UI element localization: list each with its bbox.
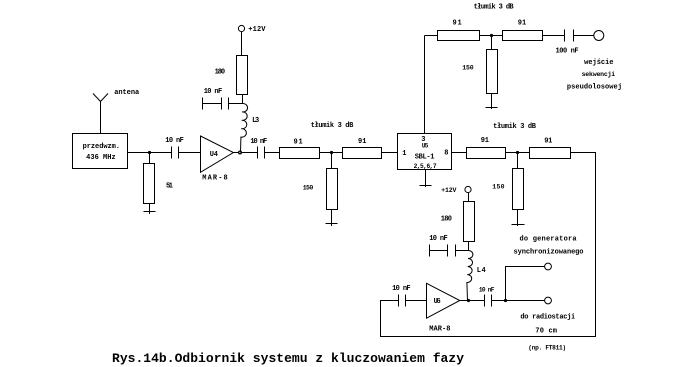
svg-text:MAR-8: MAR-8 bbox=[429, 325, 450, 333]
node junction dot bbox=[148, 151, 151, 154]
wire bbox=[480, 35, 503, 37]
capacitor 10 nF decoupling (top) bbox=[203, 88, 243, 110]
wire pin 8 bbox=[452, 152, 467, 154]
wire U6 output bbox=[460, 300, 485, 302]
svg-text:U5: U5 bbox=[422, 142, 429, 149]
terminal wejscie bbox=[594, 31, 604, 41]
terminal do generatora bbox=[545, 263, 552, 270]
node U6 output bbox=[467, 299, 470, 302]
svg-text:przedwzm.: przedwzm. bbox=[83, 143, 120, 151]
svg-text:10 nF: 10 nF bbox=[250, 138, 267, 146]
ground bbox=[486, 107, 498, 109]
svg-text:tłumik 3 dB: tłumik 3 dB bbox=[474, 4, 515, 12]
svg-text:antena: antena bbox=[114, 89, 140, 97]
svg-text:91: 91 bbox=[358, 138, 367, 146]
wire to upper output terminal bbox=[506, 267, 545, 301]
svg-text:10 nF: 10 nF bbox=[429, 235, 448, 243]
resistor 180 (U6 bias) bbox=[441, 202, 475, 242]
resistor 150 (shunt 2) bbox=[462, 36, 497, 110]
svg-text:(np. FT811): (np. FT811) bbox=[528, 344, 566, 351]
wire bbox=[241, 32, 243, 56]
svg-text:pseudolosowej: pseudolosowej bbox=[567, 84, 622, 92]
resistor 91 (R a) bbox=[280, 139, 320, 159]
svg-text:180: 180 bbox=[215, 68, 226, 76]
svg-text:MAR-8: MAR-8 bbox=[202, 175, 227, 183]
mixer U5 SBL-1 bbox=[398, 134, 452, 170]
ground under U5 bbox=[420, 170, 432, 188]
wire pin 3 up bbox=[424, 36, 426, 134]
svg-text:wejście: wejście bbox=[584, 59, 613, 67]
svg-text:8: 8 bbox=[444, 150, 448, 158]
wire to feedback loop bbox=[381, 153, 596, 337]
svg-text:L3: L3 bbox=[252, 117, 259, 125]
resistor 180 bbox=[215, 56, 248, 95]
svg-text:51: 51 bbox=[166, 183, 173, 191]
inductor L3 bbox=[241, 103, 260, 152]
svg-text:+12V: +12V bbox=[248, 26, 266, 34]
wire U4 output bbox=[233, 152, 257, 154]
wire to lower output terminal bbox=[506, 300, 545, 302]
wire top rail bbox=[425, 35, 438, 37]
resistor 91 (R d) bbox=[503, 20, 543, 41]
svg-text:10 nF: 10 nF bbox=[165, 137, 184, 145]
resistor 91 (R c) bbox=[438, 20, 480, 41]
svg-text:10 nF: 10 nF bbox=[204, 88, 223, 96]
svg-text:436 MHz: 436 MHz bbox=[86, 154, 116, 162]
svg-text:10 nF: 10 nF bbox=[479, 287, 495, 294]
label do generatora synchronizowanego bbox=[514, 236, 584, 257]
resistor 91 (R b) bbox=[343, 138, 382, 159]
ground bbox=[144, 211, 156, 213]
wire bbox=[543, 35, 565, 37]
svg-text:Rys.14b.Odbiornik systemu z kl: Rys.14b.Odbiornik systemu z kluczowaniem… bbox=[112, 351, 464, 366]
resistor 150 (shunt 1) bbox=[303, 153, 338, 227]
op-amp U6 (MAR-8) bbox=[427, 283, 460, 333]
capacitor 100 nF bbox=[556, 30, 594, 56]
wire bbox=[506, 152, 530, 154]
capacitor 10 nF (preamp to U4) bbox=[165, 137, 200, 159]
svg-text:91: 91 bbox=[453, 20, 462, 28]
svg-text:150: 150 bbox=[303, 185, 314, 192]
svg-text:SBL-1: SBL-1 bbox=[415, 154, 435, 162]
node junction bbox=[330, 151, 333, 154]
preamp box przedwzm. 436 MHz bbox=[73, 134, 128, 169]
svg-text:91: 91 bbox=[518, 20, 527, 28]
svg-text:U4: U4 bbox=[210, 151, 218, 159]
capacitor 10 nF (U6 input) bbox=[392, 285, 426, 306]
svg-text:180: 180 bbox=[441, 216, 452, 224]
svg-text:tłumik 3 dB: tłumik 3 dB bbox=[493, 123, 537, 131]
svg-text:150: 150 bbox=[462, 65, 473, 72]
capacitor 10 nF (U6 output) bbox=[479, 287, 506, 307]
ground bbox=[512, 224, 525, 226]
op-amp U4 (MAR-8) bbox=[201, 136, 234, 183]
svg-text:do generatora: do generatora bbox=[520, 236, 578, 244]
wire bbox=[468, 242, 470, 251]
wire bbox=[468, 193, 470, 202]
svg-text:tłumik 3 dB: tłumik 3 dB bbox=[311, 122, 354, 130]
svg-text:2,5,6,7: 2,5,6,7 bbox=[414, 163, 437, 170]
svg-text:U6: U6 bbox=[434, 298, 441, 306]
node junction bbox=[490, 34, 493, 37]
svg-text:91: 91 bbox=[544, 137, 552, 145]
label wejscie sekwencji pseudolosowej bbox=[567, 59, 622, 91]
svg-text:10 nF: 10 nF bbox=[392, 285, 411, 293]
svg-text:91: 91 bbox=[481, 137, 489, 145]
terminal +12V bbox=[238, 25, 266, 34]
capacitor 10 nF (U4 out) bbox=[250, 138, 279, 159]
resistor 91 (R f) bbox=[530, 137, 571, 158]
antenna bbox=[93, 94, 108, 134]
svg-text:70 cm: 70 cm bbox=[535, 327, 557, 335]
ground bbox=[326, 223, 338, 225]
inductor L4 bbox=[467, 251, 486, 301]
resistor 51 bbox=[144, 153, 174, 215]
svg-text:synchronizowanego: synchronizowanego bbox=[514, 249, 584, 257]
svg-text:100 nF: 100 nF bbox=[556, 48, 579, 56]
svg-text:do radiostacji: do radiostacji bbox=[520, 314, 575, 322]
wire bbox=[320, 152, 343, 154]
resistor 150 (shunt 3) bbox=[492, 153, 523, 227]
svg-text:91: 91 bbox=[294, 139, 303, 147]
svg-text:1: 1 bbox=[402, 150, 406, 158]
svg-text:150: 150 bbox=[492, 184, 504, 191]
label do radiostacji 70 cm bbox=[520, 314, 575, 352]
terminal do radiostacji bbox=[545, 297, 552, 304]
svg-text:L4: L4 bbox=[477, 267, 486, 275]
node junction bbox=[516, 151, 519, 154]
svg-text:sekwencji: sekwencji bbox=[582, 71, 616, 78]
node U4 output bbox=[238, 151, 242, 155]
wire bbox=[382, 152, 398, 154]
resistor 91 (R e) bbox=[467, 137, 506, 158]
terminal +12V (U6 bias) bbox=[441, 186, 471, 194]
capacitor 10 nF decoupling (U6) bbox=[429, 235, 468, 256]
svg-text:+12V: +12V bbox=[441, 187, 456, 194]
wire preamp output bbox=[128, 152, 172, 154]
wire bbox=[242, 95, 244, 104]
node after output cap bbox=[504, 299, 507, 302]
